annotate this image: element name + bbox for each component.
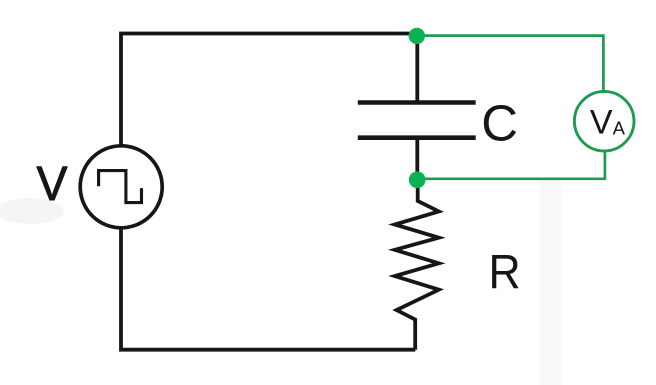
- green wire: voltmeter bottom to node B: [417, 151, 605, 179]
- green wire: node A to voltmeter top: [417, 36, 603, 92]
- resistor R zigzag: [395, 180, 439, 350]
- wire: bottom rail from source bottom to resistor bottom: [121, 228, 415, 350]
- node B (bottom junction dot): [409, 171, 426, 188]
- svg-text:C: C: [481, 95, 518, 152]
- svg-text:V: V: [37, 158, 68, 211]
- node A (top junction dot): [409, 28, 425, 44]
- voltmeter U1 circle: [574, 91, 634, 151]
- voltage source V1: [80, 146, 162, 228]
- capacitor C bottom plate: [358, 135, 476, 140]
- wire: node A down to capacitor top plate: [415, 36, 419, 103]
- wire: capacitor bottom plate down to node B: [415, 137, 419, 179]
- capacitor C top plate: [358, 100, 476, 105]
- wire: top rail from source top to node A: [121, 34, 417, 147]
- square-wave symbol inside V1: [99, 171, 142, 203]
- svg-text:R: R: [489, 246, 521, 299]
